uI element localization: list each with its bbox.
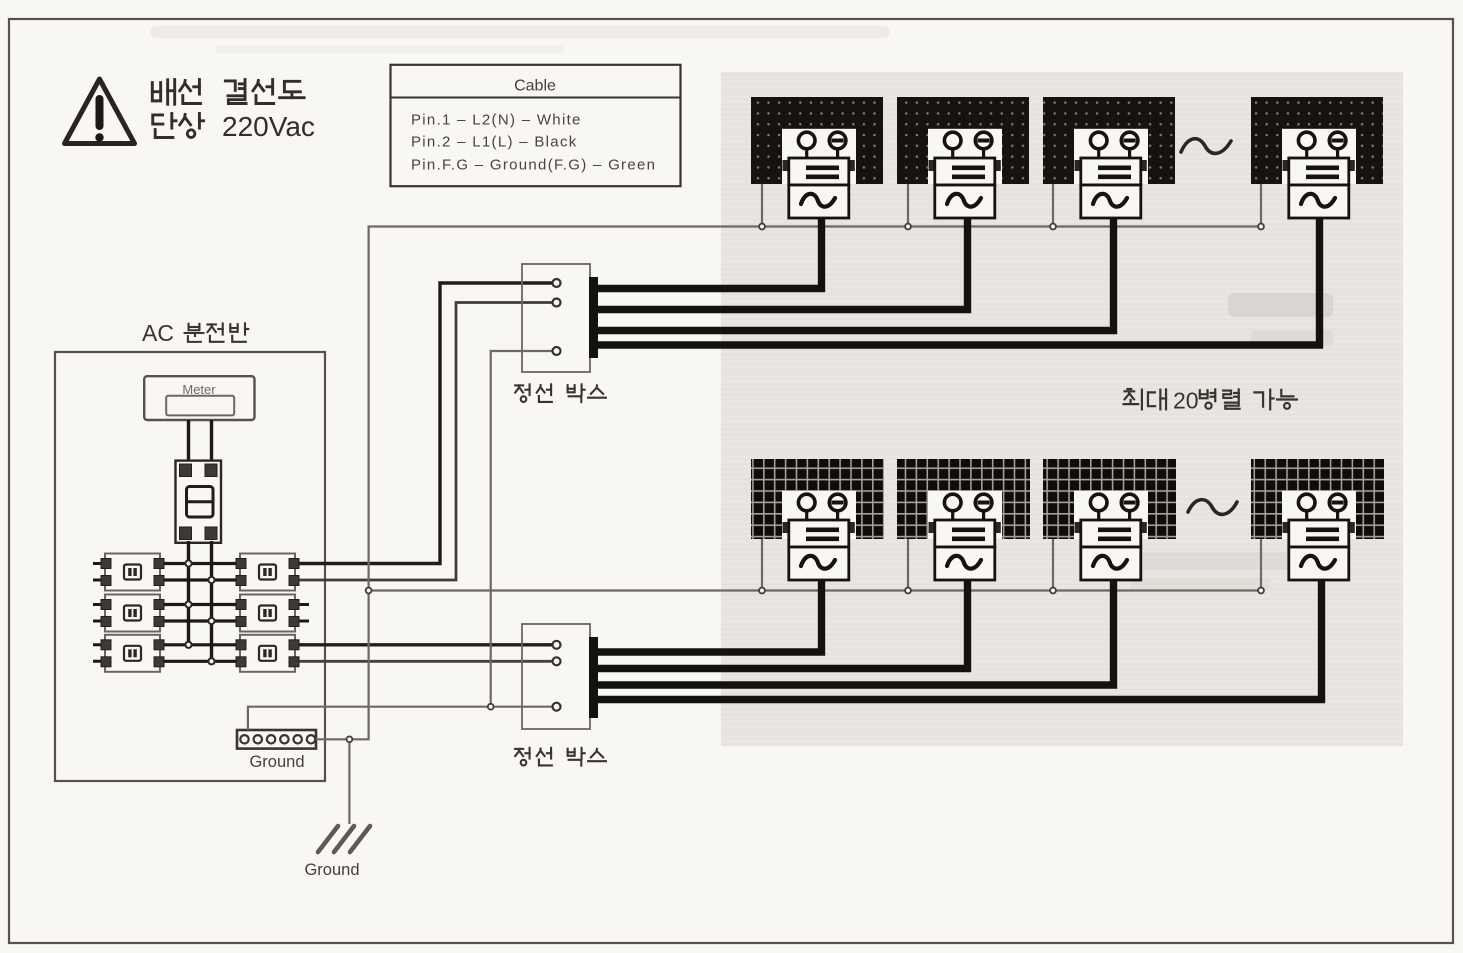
microinverter top row 1 (783, 132, 855, 218)
ground terminal strip (237, 730, 316, 749)
earth drop wire (348, 739, 350, 824)
microinverter bottom row 2 (929, 494, 1001, 580)
PV module bottom row 4 (1251, 459, 1384, 539)
microinverter bottom row 4 (1283, 494, 1355, 580)
wire L1 row3 to junction box 2 (295, 643, 553, 646)
breaker interconnect wires (93, 564, 105, 581)
microinverter bottom row 1 (783, 494, 855, 580)
earth ground symbol (318, 826, 370, 852)
AC trunk cables bottom row (594, 573, 822, 652)
PV frame ground stub top 1 (761, 184, 763, 227)
svg-text:Pin.2 – L1(L) – Black: Pin.2 – L1(L) – Black (411, 134, 578, 151)
ground wire strip to junction box 2 (248, 707, 553, 730)
microinverter top row 3 (1075, 132, 1147, 218)
ground riser wire to PV rows (316, 227, 1261, 740)
bottom PV row ground wire (369, 589, 1260, 591)
main breaker (176, 461, 222, 543)
PV frame ground stub bottom 1 (761, 539, 763, 591)
wires meter to main breaker (189, 420, 212, 466)
meter box (144, 376, 254, 420)
PV frame ground stub top 2 (907, 184, 909, 227)
cable spec table (391, 65, 681, 186)
cable bundle box 1 (589, 277, 598, 358)
bus wires from main breaker (187, 541, 190, 645)
warning triangle symbol (65, 79, 135, 144)
PV frame ground stub bottom 4 (1260, 539, 1262, 591)
label 정선 박스 2 (529, 748, 531, 759)
svg-text:20: 20 (1173, 388, 1199, 414)
wire L2 row1 to junction box 1 (295, 303, 553, 581)
PV frame ground stub bottom 3 (1052, 539, 1054, 591)
PV module top row 1 (751, 97, 883, 184)
svg-text:Pin.1 – L2(N) – White: Pin.1 – L2(N) – White (411, 112, 582, 129)
continuation tilde bottom row (1188, 500, 1237, 515)
PV module top row 3 (1043, 97, 1175, 184)
PV module top row 4 (1251, 97, 1383, 184)
cable bundle box 2 (589, 637, 598, 718)
wire L1 row1 to junction box 1 (295, 283, 553, 564)
continuation tilde top row (1181, 139, 1231, 154)
PV frame ground stub bottom 2 (907, 539, 909, 591)
wire L2 row3 to junction box 2 (295, 660, 553, 663)
PV module top row 2 (897, 97, 1029, 184)
junction box 2 (정선 박스) (522, 624, 590, 729)
svg-text:Meter: Meter (182, 382, 216, 397)
PV frame ground stub top 4 (1260, 184, 1262, 227)
svg-text:Ground: Ground (304, 861, 359, 879)
ground wire junction box 1 drop (491, 351, 553, 707)
PV module bottom row 1 (751, 459, 884, 539)
six branch breakers (101, 554, 164, 591)
svg-text:220Vac: 220Vac (222, 111, 315, 142)
AC distribution panel box (AC 분전반) (55, 352, 325, 781)
PV frame ground stub top 3 (1052, 184, 1054, 227)
scan ghost artifacts (1228, 293, 1333, 317)
microinverter top row 4 (1283, 132, 1355, 218)
svg-text:Pin.F.G – Ground(F.G) – Green: Pin.F.G – Ground(F.G) – Green (411, 157, 656, 174)
title line 1: 배선 결선도 (166, 80, 169, 104)
PV module bottom row 3 (1043, 459, 1176, 539)
PV module bottom row 2 (897, 459, 1030, 539)
microinverter top row 2 (929, 132, 1001, 218)
bus junction dots (185, 560, 191, 566)
microinverter bottom row 3 (1075, 494, 1147, 580)
AC trunk cables top row (594, 212, 822, 289)
gray background zone behind PV array (721, 72, 1403, 746)
junction box 1 (정선 박스) (522, 264, 590, 372)
note 최대 20병렬 가능 (1127, 388, 1131, 390)
title line 2: 단상 220Vac (170, 114, 173, 129)
svg-text:AC: AC (142, 320, 174, 346)
svg-text:Ground: Ground (249, 753, 304, 771)
label 정선 박스 1 (529, 384, 531, 395)
svg-text:Cable: Cable (514, 78, 556, 95)
